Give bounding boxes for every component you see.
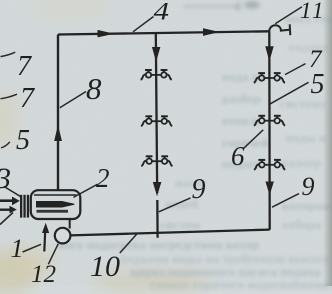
cold water inlet arrow (1) (43, 231, 46, 252)
paper grain (0, 0, 1, 1)
leader 12 (48, 244, 58, 264)
air vent gooseneck (11) at top of right riser (269, 25, 289, 31)
flow arrow down, middle riser top (153, 48, 160, 61)
tap pair, middle riser, top (7) (156, 70, 172, 80)
paper texture blobs (0, 250, 38, 294)
pipe: middle distribution riser (156, 33, 157, 193)
leader 6 (244, 130, 263, 148)
stray lead under inlet (0, 213, 13, 225)
pipe: right distribution riser (268, 31, 271, 230)
flow arrow on header, left (98, 31, 112, 37)
tap pair, right riser, bottom (270, 160, 286, 170)
leader 10 (120, 234, 137, 253)
tap pair, right riser, top (7) (269, 73, 285, 83)
inlet flange bars (3) (20, 195, 22, 218)
right page-edge shading (323, 0, 332, 286)
leader dash for left 7 (lower) (1, 94, 18, 99)
flow arrow on header, right (204, 29, 218, 35)
flow arrow down, right riser top (266, 47, 273, 60)
tap pair, middle riser, middle (157, 116, 173, 126)
leader 2 (73, 184, 97, 197)
pipe: top header (4) (58, 31, 269, 34)
lower tube inside heater (37, 210, 69, 213)
tap pair, right riser, middle (6) (270, 116, 286, 126)
circulation pump circle (12) (55, 228, 71, 244)
leader dash for left 7 (upper) (1, 52, 16, 56)
leader 11 (275, 7, 302, 24)
ejector nozzle inside heater (37, 202, 75, 208)
leader 9 middle (159, 198, 191, 212)
leader 7 right (285, 64, 306, 75)
water heater / ejector body (2) (31, 190, 81, 219)
stub from heater to circulation pump (69, 219, 71, 228)
flow arrow down, middle riser bottom (154, 183, 161, 195)
leader 8 (60, 92, 86, 108)
steam inlet arrow lower (0, 208, 10, 210)
leader 5 right (270, 82, 308, 104)
flow arrow up on left riser (55, 127, 62, 141)
leader 1 (23, 244, 41, 252)
leader dash for left 5 (1, 142, 10, 148)
steam inlet arrow upper (0, 199, 12, 202)
flow arrow down, right riser bottom (266, 182, 273, 194)
bleed-through text rows (183, 0, 263, 12)
leader 4 (133, 17, 154, 32)
tap pair, middle riser, bottom (157, 156, 173, 166)
pipe: left supply riser (8) (57, 35, 59, 191)
leader 3 (4, 186, 21, 196)
pipe: circulation return line (10) (70, 230, 269, 236)
leader 9 right (272, 194, 299, 208)
